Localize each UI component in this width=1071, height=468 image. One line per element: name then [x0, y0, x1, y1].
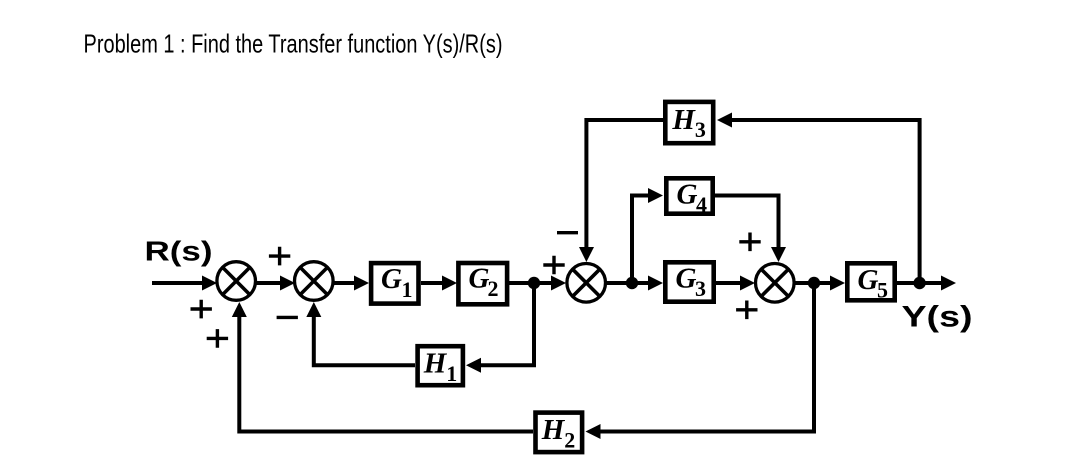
node takeoff to H2 [808, 277, 820, 289]
block G4 [666, 178, 712, 217]
wire G4 to S4 top [715, 196, 786, 263]
wire G3 to S4 [715, 276, 755, 291]
svg-text:G: G [677, 179, 698, 211]
svg-text:H: H [423, 347, 448, 379]
block G2 [458, 263, 507, 305]
wire H1 out left and up into S2 bottom [306, 302, 415, 365]
wire takeoff up to G4 [632, 188, 663, 283]
wire S3 to G3 [606, 276, 663, 291]
sign plus S4 main input [736, 301, 757, 320]
node takeoff to H3 [913, 277, 925, 289]
summing junction S3 [567, 264, 606, 303]
node takeoff to G4 [626, 277, 638, 289]
wire H2 out left and up into S1 bottom [232, 302, 533, 432]
wire S1 to S2 [256, 276, 295, 291]
summing junction S1 [217, 262, 256, 301]
wire S2 to G1 [333, 276, 369, 291]
block G3 [665, 262, 713, 301]
svg-text:1: 1 [402, 277, 413, 302]
svg-text:4: 4 [696, 192, 707, 217]
wire G2 to S3 [509, 276, 566, 291]
sign plus S4 top input [739, 233, 760, 252]
summing junction S2 [295, 262, 334, 301]
block H3 [665, 102, 713, 143]
svg-text:G: G [676, 263, 697, 295]
wire takeoff down to H2 [586, 283, 815, 439]
node takeoff to H1 [528, 277, 540, 289]
svg-text:1: 1 [446, 361, 457, 386]
svg-text:Y(s): Y(s) [902, 301, 973, 334]
sign minus S2 feedback [277, 316, 298, 319]
block G5 [847, 263, 894, 302]
svg-text:R(s): R(s) [145, 236, 213, 267]
svg-text:G: G [858, 264, 879, 296]
sign plus S2 main input [269, 247, 290, 266]
svg-text:5: 5 [877, 278, 888, 303]
summing junction S4 [756, 264, 795, 303]
wire G1 to G2 [421, 276, 457, 291]
svg-text:3: 3 [695, 276, 706, 301]
wire input to S1 [152, 276, 217, 291]
wire takeoff down to H1 [466, 283, 534, 373]
sign minus S3 top feedback [557, 231, 578, 234]
svg-text:H: H [541, 414, 566, 446]
wire H3 out left and down into S3 top [579, 120, 664, 262]
svg-text:G: G [381, 263, 402, 295]
wire G5 to output [897, 276, 956, 291]
sign plus S1 main input [191, 300, 212, 319]
block G1 [371, 263, 418, 304]
svg-text:G: G [469, 263, 490, 295]
wire S4 to G5 [795, 276, 845, 291]
sign plus S1 feedback input [207, 329, 228, 348]
svg-text:2: 2 [564, 428, 575, 453]
block H2 [536, 413, 583, 453]
svg-text:3: 3 [695, 117, 706, 142]
wire output takeoff up and left into H3 [717, 113, 920, 284]
block H1 [418, 346, 463, 386]
svg-text:H: H [671, 104, 696, 136]
sign plus S3 main input [543, 256, 564, 275]
svg-text:2: 2 [488, 276, 499, 301]
svg-text:Problem 1 : Find the Transfer: Problem 1 : Find the Transfer function Y… [84, 29, 503, 59]
